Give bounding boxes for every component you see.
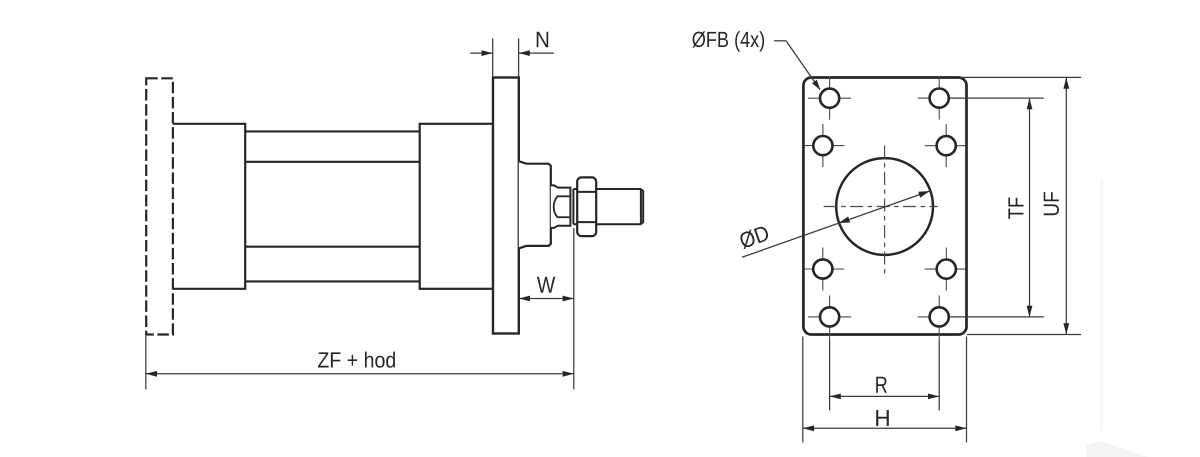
label ØFB (4x): [692, 31, 764, 51]
faint page artifact vertical: [1100, 180, 1103, 430]
H arrow right: [955, 425, 966, 431]
label R: [876, 377, 887, 393]
UF extension line bottom: [967, 334, 1081, 336]
piston rod thread outline: [573, 189, 643, 224]
rear mounting plate (dashed, phantom): [146, 78, 173, 334]
nut facet upper: [577, 191, 596, 193]
dimension ZF left arrow: [146, 371, 157, 377]
R arrow right: [928, 394, 939, 400]
dimension H line: [803, 427, 967, 429]
R extension line left: [829, 340, 831, 411]
label ØD: [738, 224, 770, 249]
TF extension line top: [951, 97, 1044, 99]
tie rod upper line: [245, 130, 420, 132]
tie rod lower line: [245, 280, 420, 282]
dimension W left arrow: [519, 296, 530, 302]
rod collar: [551, 185, 571, 228]
ØD leader line: [742, 191, 930, 257]
wrench flat upper line: [557, 195, 571, 197]
hole tie-rod lower-left: [805, 248, 845, 291]
nut facet lower: [577, 221, 596, 223]
dimension N extension line right: [518, 39, 520, 78]
front flange (side view): [493, 78, 519, 334]
label N: [537, 32, 549, 48]
rod gland: [519, 161, 551, 248]
R extension line right: [938, 340, 940, 411]
bore circle ØD: [836, 158, 933, 255]
TF extension line bottom: [951, 316, 1044, 318]
bore centerline horizontal: [824, 206, 938, 208]
front head: [420, 124, 493, 289]
label H: [876, 410, 889, 426]
TF arrow down: [1027, 306, 1033, 317]
rod shoulder line: [572, 189, 574, 224]
ØFB leader horizontal tick: [774, 40, 786, 42]
TF arrow up: [1027, 98, 1033, 109]
dimension N extension line left: [492, 39, 494, 78]
dimension N line right segment: [519, 52, 554, 54]
hole tie-rod lower-right: [925, 248, 966, 291]
dimension N left arrow: [482, 50, 493, 56]
dimension UF line: [1065, 78, 1067, 335]
hole FB top-left: [808, 77, 851, 120]
dimension ZF line: [146, 373, 574, 375]
bore centerline vertical: [884, 146, 886, 277]
UF arrow up: [1063, 78, 1069, 89]
lock nut: [577, 177, 596, 236]
dimension TF line: [1029, 98, 1031, 317]
UF arrow down: [1063, 323, 1069, 334]
hole FB bottom-right: [918, 295, 961, 340]
faint page artifact corner: [1086, 441, 1148, 457]
flange plate (front view): [803, 78, 966, 335]
ØD arrow upper-right: [918, 191, 930, 198]
dimension W line: [519, 298, 574, 300]
wrench flat arc: [554, 196, 558, 217]
label TF: [1008, 198, 1023, 219]
dimension N line left segment: [470, 52, 493, 54]
H arrow left: [803, 425, 814, 431]
cylinder tube top line: [245, 161, 420, 163]
ØD arrow lower-left: [839, 217, 851, 224]
hole FB top-right: [918, 77, 961, 120]
dimension R line: [830, 395, 940, 397]
hole tie-rod upper-right: [925, 124, 966, 167]
label UF: [1044, 192, 1059, 215]
label W: [537, 277, 555, 293]
rear cap: [173, 124, 245, 289]
cylinder tube bottom line: [245, 246, 420, 248]
extension line rear face: [145, 336, 147, 390]
UF extension line top: [960, 76, 1081, 78]
dimension N right arrow: [519, 50, 530, 56]
ØFB leader arrow: [812, 80, 820, 90]
H extension line right: [966, 337, 968, 443]
label ZF + hod: [318, 352, 395, 368]
dimension W right arrow: [563, 296, 574, 302]
H extension line left: [802, 337, 804, 443]
extension line rod end (shared W / ZF): [573, 228, 575, 389]
hole FB bottom-left: [808, 295, 851, 340]
wrench flat lower line: [557, 216, 571, 218]
dimension ZF right arrow: [563, 371, 574, 377]
R arrow left: [830, 394, 841, 400]
hole tie-rod upper-left: [805, 124, 845, 167]
ØFB leader diagonal: [786, 41, 820, 90]
